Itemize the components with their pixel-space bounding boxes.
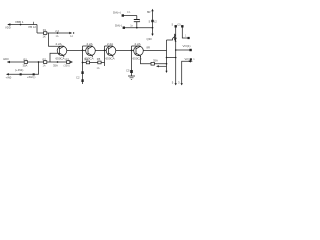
wire base lead Q5 bbox=[167, 38, 173, 40]
wire A-B link bbox=[167, 57, 176, 59]
svg-text:+IN2(-): +IN2(-) bbox=[27, 75, 36, 79]
svg-text:DA(-): DA(-) bbox=[115, 24, 122, 28]
wire y74.3 bbox=[9, 62, 39, 74]
resistor R8 bbox=[151, 62, 154, 65]
wire rail y33 bbox=[37, 32, 70, 34]
wire Q2 to Q3 bbox=[95, 49, 104, 51]
svg-text:1A: 1A bbox=[97, 67, 100, 70]
svg-text:2.2A: 2.2A bbox=[107, 42, 113, 46]
resistor R3 bbox=[67, 61, 70, 64]
port +IN arrow bottom-left bbox=[7, 73, 9, 75]
port V2 wire bbox=[182, 61, 193, 84]
wire DA(-) bbox=[124, 27, 153, 29]
node Q4 column bbox=[131, 50, 133, 52]
node bbox=[57, 61, 59, 63]
svg-text:DA(+): DA(+) bbox=[113, 10, 121, 14]
wire VBB bbox=[11, 24, 38, 26]
wire Q4 base column bbox=[131, 46, 133, 76]
svg-text:1A: 1A bbox=[70, 35, 73, 38]
svg-text:650CA: 650CA bbox=[106, 56, 115, 60]
resistor R4 bbox=[86, 61, 89, 64]
svg-text:R5: R5 bbox=[97, 57, 101, 61]
port IN arrow mid-left bbox=[8, 61, 11, 63]
pad V2 bbox=[190, 58, 192, 60]
transistor Q3 bbox=[106, 46, 116, 57]
svg-text:1: 1 bbox=[139, 18, 141, 22]
wire Q3 base column bbox=[104, 46, 106, 66]
wire Q1 to Q2 bbox=[67, 49, 83, 51]
svg-text:(35A): (35A) bbox=[64, 65, 70, 68]
svg-text:R1: R1 bbox=[43, 28, 47, 32]
svg-text:2.2A: 2.2A bbox=[135, 42, 141, 46]
svg-text:1: 1 bbox=[193, 58, 195, 61]
node bbox=[57, 32, 59, 34]
output bus A bbox=[166, 40, 168, 72]
arrow rail end bbox=[69, 32, 72, 34]
resistor R2 bbox=[44, 61, 47, 64]
transistor Q5 bbox=[175, 34, 177, 42]
ground Q4 column bbox=[128, 76, 135, 80]
svg-text:HD0: HD0 bbox=[3, 57, 9, 61]
node bbox=[38, 61, 40, 63]
svg-text:2.2: 2.2 bbox=[55, 29, 59, 33]
emitter bus B bbox=[175, 26, 177, 84]
transistor Q4 bbox=[134, 46, 144, 57]
svg-text:VO(1): VO(1) bbox=[183, 44, 191, 48]
svg-text:8R: 8R bbox=[147, 10, 150, 14]
svg-text:Q30: Q30 bbox=[147, 37, 153, 41]
pin tick 1 bbox=[33, 22, 35, 25]
stub arrow bbox=[159, 65, 167, 67]
pad bbox=[33, 73, 35, 75]
transistor Q2 bbox=[86, 46, 96, 57]
svg-text:VBB 1: VBB 1 bbox=[15, 20, 24, 24]
node bbox=[166, 63, 168, 65]
svg-text:(+IN1): (+IN1) bbox=[15, 68, 23, 72]
svg-text:V2(: V2( bbox=[185, 57, 189, 61]
port VDD arrow top-left bbox=[8, 24, 11, 26]
node Q3 column bbox=[104, 50, 106, 52]
svg-text:+IN0: +IN0 bbox=[6, 76, 12, 80]
svg-text:35A: 35A bbox=[53, 64, 58, 68]
svg-text:2.2A: 2.2A bbox=[56, 42, 62, 46]
svg-text:3: 3 bbox=[178, 81, 180, 85]
resistor R31 bbox=[44, 32, 47, 35]
port DA(+) pad bbox=[122, 14, 124, 16]
svg-text:R2: R2 bbox=[43, 57, 47, 61]
svg-text:650CA: 650CA bbox=[56, 56, 65, 60]
transistor Q1 bbox=[57, 46, 67, 57]
wire Q4 emitter return bbox=[141, 56, 167, 64]
capacitor pads on Q2 column bbox=[81, 71, 83, 74]
wire Q2 base column bbox=[82, 46, 84, 84]
capacitor pad on Q4 column bbox=[130, 70, 133, 73]
svg-text:PB 12: PB 12 bbox=[29, 25, 37, 29]
svg-text:5: 5 bbox=[172, 23, 174, 27]
svg-text:R1: R1 bbox=[24, 57, 28, 61]
svg-text:1n: 1n bbox=[130, 24, 133, 27]
pad V+ bbox=[175, 25, 177, 27]
svg-text:(2: (2 bbox=[154, 19, 157, 23]
svg-text:C2: C2 bbox=[76, 75, 80, 79]
svg-text:35A: 35A bbox=[153, 58, 158, 62]
wire pad2 bbox=[182, 26, 188, 38]
arrow rail y62 bbox=[70, 61, 73, 63]
svg-text:5: 5 bbox=[149, 19, 151, 23]
svg-text:R3: R3 bbox=[66, 57, 70, 61]
node VBB bbox=[20, 24, 22, 26]
wire drop to Q1 collector bbox=[49, 33, 65, 46]
svg-text:1A: 1A bbox=[43, 65, 46, 68]
capacitor C30 bbox=[136, 16, 138, 28]
svg-text:0.1: 0.1 bbox=[127, 11, 131, 14]
wire OUT bbox=[176, 49, 190, 51]
svg-text:1A: 1A bbox=[56, 35, 59, 38]
svg-text:VDD: VDD bbox=[5, 26, 11, 30]
node Q2 column bbox=[82, 50, 84, 52]
svg-text:2.2A: 2.2A bbox=[87, 42, 93, 46]
svg-text:5: 5 bbox=[172, 81, 174, 85]
wire Q4 to output bus bbox=[143, 49, 166, 51]
svg-text:1K: 1K bbox=[43, 34, 46, 38]
wire rail y62 right segment bbox=[83, 62, 105, 64]
pad 2 bbox=[181, 25, 183, 27]
wire riser to Q1 base bbox=[50, 53, 60, 62]
svg-text:1: 1 bbox=[185, 34, 187, 37]
svg-text:650CA: 650CA bbox=[133, 56, 142, 60]
wire DA(+) bbox=[123, 15, 137, 17]
svg-text:(2): (2) bbox=[177, 23, 180, 27]
svg-text:8R: 8R bbox=[147, 46, 150, 50]
resistor R5 bbox=[98, 61, 101, 64]
wire rail y62 left segment bbox=[10, 61, 69, 63]
svg-text:R4: R4 bbox=[85, 58, 89, 62]
supply column I1 bbox=[152, 10, 154, 34]
resistor R1 bbox=[24, 61, 27, 64]
port DA(-) pad bbox=[123, 27, 125, 29]
wire Q3 to Q4 bbox=[116, 49, 132, 51]
svg-text:C5: C5 bbox=[126, 69, 130, 73]
pad bbox=[20, 73, 22, 75]
wire corner bbox=[36, 25, 38, 34]
